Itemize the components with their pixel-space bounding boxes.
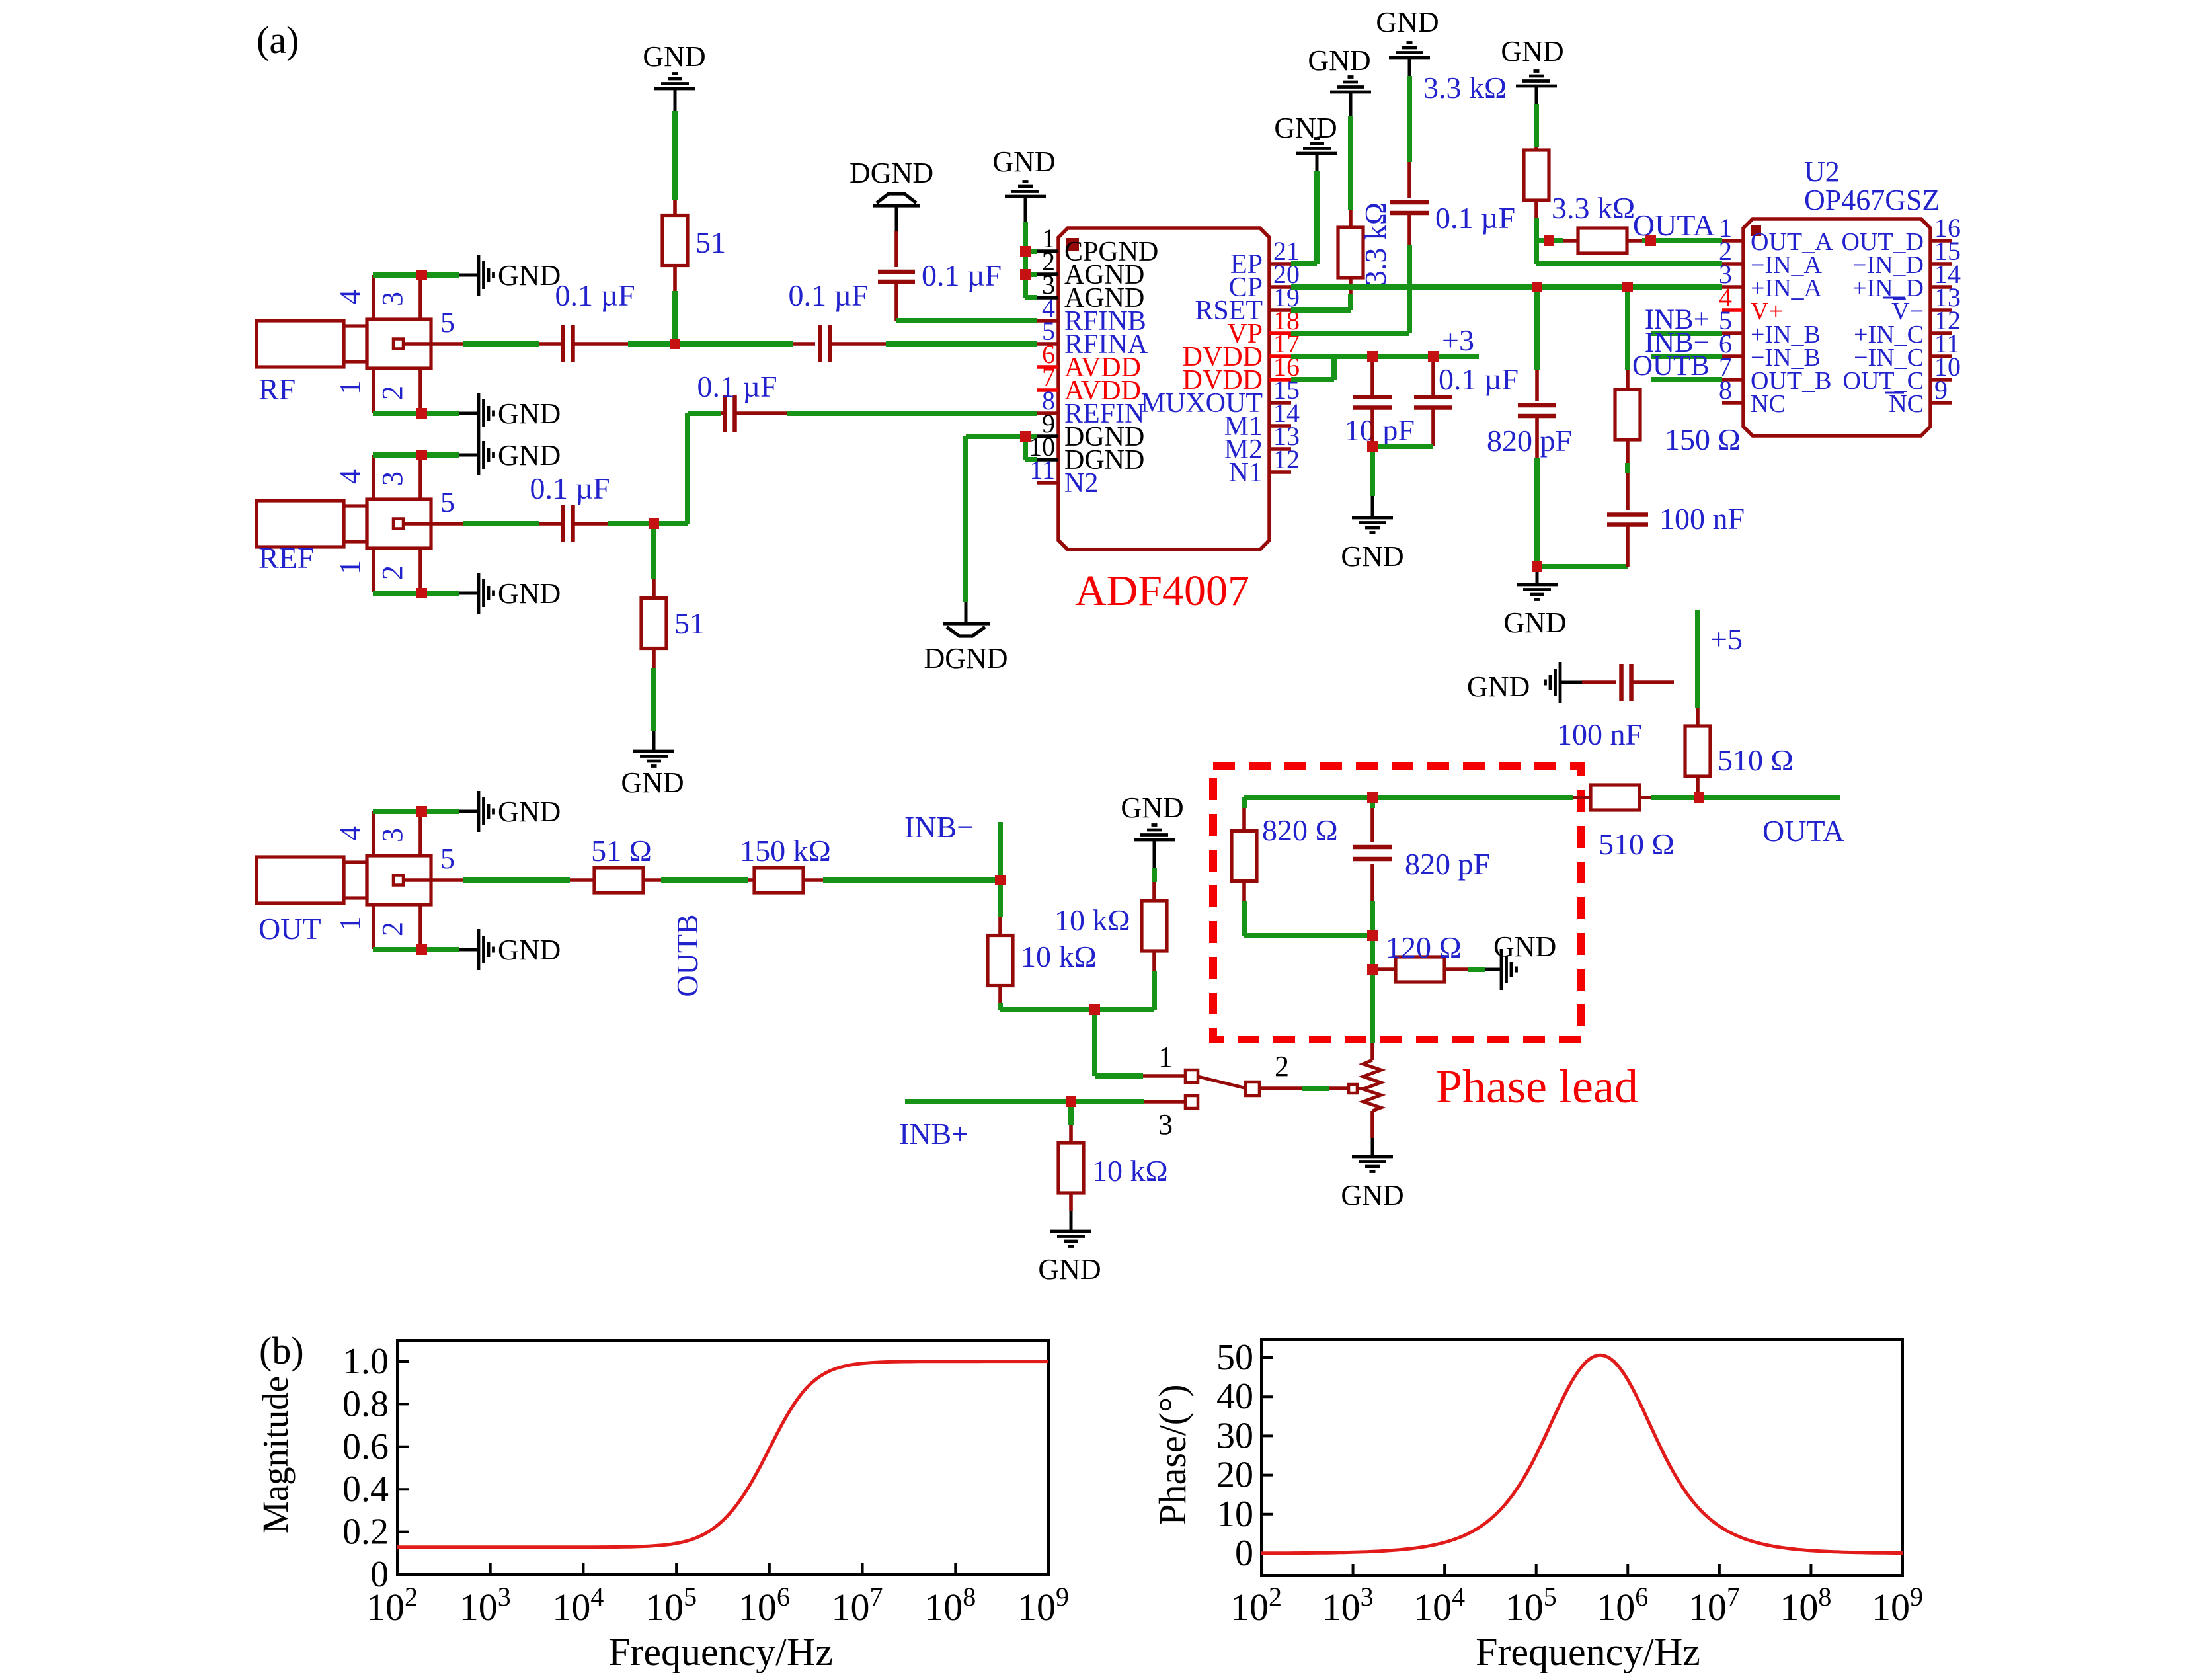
connector X3 pin 5 pad [393,876,403,885]
wire R10 up to GND [1152,882,1156,902]
wire INB- stub up [998,822,1003,880]
svg-text:10 kΩ: 10 kΩ [1054,903,1130,937]
wire stub to R5 [1563,239,1580,243]
wire RF pin5 to C1 [431,342,463,346]
svg-text:GND: GND [1121,792,1183,824]
svg-text:DGND: DGND [849,157,933,189]
plot phase curve [1261,1355,1903,1553]
svg-text:NC: NC [1751,390,1786,418]
switch S1 contact 1 [1185,1070,1198,1082]
junction INB+ / R11 [1066,1096,1076,1107]
svg-text:10 pF: 10 pF [1345,413,1415,447]
wire R5 to OUT_A pin 1 [1627,239,1642,243]
ground X2 bottom GND symbol [459,592,479,595]
svg-text:0.1 µF: 0.1 µF [922,259,1002,292]
U1 pin 9 DGND stub [1037,434,1058,438]
svg-text:1: 1 [334,917,366,931]
junction OUT bottom ground [416,944,427,955]
wire +3 to C8 [1431,356,1435,395]
wire INB+ lead to switch pin 3 [1144,1100,1184,1104]
resistor R8 150 kOhm [754,868,803,893]
svg-text:GND: GND [1376,6,1439,38]
wire node B to riser [654,521,688,526]
connector X2 body [257,501,344,547]
svg-text:10: 10 [1216,1494,1253,1535]
plot magnitude x ticks [396,1563,399,1574]
svg-text:3: 3 [1158,1108,1173,1141]
svg-text:4: 4 [334,290,366,304]
U1 pin 1 CPGND stub [1037,249,1058,253]
svg-text:(a): (a) [257,19,299,61]
wire X3 top ground wire [373,809,459,814]
wire ground row down to GND [1536,572,1539,585]
U2 pin 4 V+ stub [1722,308,1743,312]
wire GND to R4 [1534,104,1539,147]
wire R13 to GND [1444,967,1468,971]
svg-text:OUTA: OUTA [1762,814,1844,848]
U2 overline NC right [1885,392,1904,394]
wire C11 top lead [1370,797,1375,808]
connector X1 pin 5 pad [393,339,403,349]
resistor R13 120 Ohm [1396,957,1444,982]
svg-text:100 nF: 100 nF [1557,717,1642,751]
wire C9 down to ground row [1535,416,1539,458]
wire potentiometer to GND [1370,1111,1374,1138]
ground GND (R13) [1500,949,1503,990]
wire R12 down and across [1242,880,1246,901]
U1 pin 15 MUXOUT stub [1269,401,1291,405]
U1 pin 14 M1 stub [1269,424,1291,428]
svg-text:2: 2 [1275,1050,1289,1082]
svg-text:120 Ω: 120 Ω [1386,930,1462,964]
U1 pin 8 REFIN stub [1037,411,1058,415]
wire down to 120 Ohm tap [1370,936,1375,969]
wire REF pin5 to C3 [431,522,463,526]
connector X1 pins 3-4 leads [372,275,375,319]
wire U2 pin7 OUTB stub [1651,377,1722,382]
svg-text:GND: GND [1467,671,1530,703]
junction node B (REF / R2) [649,518,659,529]
svg-text:820 pF: 820 pF [1405,847,1490,881]
svg-text:GND: GND [498,796,561,828]
U2 pin 15 −IN_D stub [1930,262,1952,266]
junction RF top ground [416,270,427,280]
capacitor C9 820pF [1518,403,1556,408]
ground GND (below R11) [1050,1230,1091,1233]
wire X1 bottom ground wire [373,411,459,416]
wire R8 to INB- node [803,878,823,882]
U1 pin 7 AVDD stub [1037,388,1058,392]
wire ground node down [1370,446,1375,496]
wire DVDD pin17 +3 rail [1291,354,1479,359]
U2 pin 14 +IN_D stub [1930,285,1952,289]
svg-text:INB+: INB+ [899,1117,968,1151]
svg-text:150 kΩ: 150 kΩ [740,834,831,868]
connector X3 body [257,857,344,903]
svg-text:0.1 µF: 0.1 µF [555,278,635,312]
wire GND down to AGND pins [1023,222,1028,298]
svg-text:GND: GND [992,145,1055,178]
resistor R3 3.3k (RSET) [1338,227,1363,278]
svg-text:51: 51 [695,225,726,259]
U1 pin 2 AGND stub [1037,272,1058,276]
wire EP to GND [1314,171,1320,264]
wire node A to C2 [675,341,793,347]
svg-text:OUT: OUT [258,912,321,946]
wire R4 down to -IN_A node [1534,200,1538,218]
wire C10 to ground row [1626,525,1630,567]
U2 pin 10 OUT_C stub [1930,378,1952,382]
svg-text:GND: GND [643,40,705,73]
U2 pin 6 −IN_B stub [1722,354,1743,358]
wire R15 to +5 node [1696,775,1700,797]
svg-text:Frequency/Hz: Frequency/Hz [1476,1630,1700,1673]
junction node A (RF / R1) [670,339,680,349]
wire REFIN row to C4 [688,411,721,416]
resistor R1 51 [662,216,688,266]
U2 pin 11 −IN_C stub [1930,354,1952,358]
U1 pin 20 CP stub [1269,285,1291,289]
wire X2 bottom ground wire [373,591,459,596]
connector X1 body [257,321,344,367]
resistor R4 3.3k (to GND) [1524,150,1549,200]
U2 pin 2 −IN_A stub [1722,262,1743,266]
wire feedback tap stub [1536,238,1563,243]
junction C9 ground row [1532,561,1542,572]
svg-text:820 pF: 820 pF [1487,424,1572,458]
capacitor C12 100 nF [1619,664,1624,701]
plot phase frame [1261,1340,1903,1576]
wire riser up to REFIN row [685,413,690,524]
ground X3 top GND symbol [459,810,479,813]
resistor R10 10 kOhm (to GND) [1142,901,1167,951]
resistor R5 3.3k (feedback) [1578,228,1627,253]
wire -IN_A row to op-amp pin 2 [1536,261,1722,266]
U2 pin 7 OUT_B stub [1722,378,1743,382]
svg-text:OUTB: OUTB [1632,350,1710,382]
wire C6 to VP pin 18 [1407,213,1411,245]
junction CP / C9 branch [1532,282,1542,292]
wire C5 to RFINB pin 4 [894,282,898,321]
junction OUTA row / C11 [1367,792,1378,803]
ground GND below R2 [652,731,656,751]
U1 pin 5 RFINA stub [1037,342,1058,346]
U2 pin 8 NC stub [1722,401,1743,405]
ground GND (above R10) [1134,838,1175,842]
plot phase y ticks [1261,1552,1273,1555]
wire R11 to GND [1069,1192,1073,1211]
U1 pin 13 M2 stub [1269,447,1291,451]
junction AGND pin2 [1020,269,1031,280]
capacitor C7 10pF [1353,395,1392,399]
svg-text:U2: U2 [1804,155,1840,188]
svg-text:3.3 kΩ: 3.3 kΩ [1552,191,1635,225]
connector X2 pin 5 pad [393,519,403,529]
svg-text:9: 9 [1934,375,1948,405]
switch S1 contact 3 [1185,1096,1198,1108]
wire R1 to node A [673,265,677,291]
svg-text:10 kΩ: 10 kΩ [1092,1154,1168,1188]
svg-text:11: 11 [1029,455,1055,485]
svg-text:12: 12 [1273,444,1300,474]
svg-text:GND: GND [498,259,561,292]
capacitor C11 820 pF [1353,845,1392,850]
svg-text:Magnitude: Magnitude [255,1376,296,1533]
connector X2 pins 3-4 leads [372,455,375,499]
svg-text:2: 2 [376,922,409,936]
wire C3 to node B [573,522,608,526]
wire OUTA row inside box [1244,795,1573,800]
ground X2 top GND symbol [459,454,479,457]
junction CPGND pin1 [1020,246,1031,257]
svg-text:RF: RF [258,372,296,406]
wire GND to R1 [672,111,678,200]
wire CP down to R6 [1625,287,1630,370]
wire GND to R3 [1348,116,1353,210]
plot magnitude frame [397,1340,1048,1574]
wire divider tap down to switch pin 1 [1092,1010,1097,1076]
svg-text:3.3 kΩ: 3.3 kΩ [1423,71,1507,104]
wire R14 to +5 node [1639,796,1651,799]
wire ground row to C10 [1537,564,1628,569]
svg-text:510 Ω: 510 Ω [1599,827,1675,861]
resistor R6 150 Ohm [1615,389,1640,440]
wire R3 to RSET pin 19 [1349,278,1353,294]
wire C2 to RFINA pin 5 [830,342,886,346]
wire C11 bottom lead [1370,864,1374,901]
svg-text:2: 2 [376,565,409,580]
wire CP down to C9 [1534,287,1540,370]
junction REF bottom ground [416,588,427,598]
svg-text:INB−: INB− [904,810,974,844]
svg-text:GND: GND [1038,1253,1101,1285]
junction REF top ground [416,450,427,460]
wire tap down to potentiometer [1370,969,1375,1043]
svg-text:GND: GND [1493,930,1556,963]
junction OUTA net label point [1645,235,1656,246]
wire stub to pin 1 [1025,249,1037,254]
svg-text:3: 3 [376,471,409,486]
svg-text:20: 20 [1216,1455,1253,1496]
potentiometer RP1 wiper pad [1349,1084,1357,1093]
svg-text:GND: GND [1308,44,1370,77]
junction OUT top ground [416,806,427,817]
capacitor C5 0.1uF (RFINB to DGND) [878,270,915,274]
svg-text:820 Ω: 820 Ω [1262,813,1338,847]
wire CP to op-amp +IN_A [1291,284,1722,290]
resistor R9 10 kOhm [988,936,1013,986]
svg-text:0.6: 0.6 [342,1426,389,1467]
ground GND (below C7) [1352,516,1393,520]
junction RF bottom ground [416,408,427,419]
U1 pin 19 RSET stub [1269,308,1291,312]
svg-text:(b): (b) [259,1329,304,1372]
capacitor C1 0.1uF (RF coupling) [561,325,565,362]
svg-text:40: 40 [1216,1376,1253,1417]
svg-text:5: 5 [440,306,455,339]
wire divider row [1000,1007,1154,1012]
svg-text:5: 5 [440,842,455,875]
U1 pin 16 DVDD stub [1269,378,1291,382]
capacitor C10 100nF [1607,512,1648,517]
U2 pin 5 +IN_B stub [1722,331,1743,335]
svg-text:3: 3 [376,828,409,842]
U1 pin 18 VP stub [1269,331,1291,335]
svg-text:510 Ω: 510 Ω [1718,743,1794,777]
IC U1 ADF4007 outline [1058,228,1269,550]
capacitor C6 0.1uF (VP decoupling) [1390,200,1429,205]
plot magnitude curve [397,1362,1048,1547]
svg-text:1: 1 [1158,1041,1173,1073]
svg-text:50: 50 [1216,1337,1253,1378]
resistor R12 820 Ohm [1232,831,1257,881]
svg-text:3: 3 [376,292,409,306]
junction INB- node [995,875,1006,885]
wire +3 to C7 [1370,356,1374,395]
U1 pin 4 RFINB stub [1037,319,1058,323]
svg-text:GND: GND [498,934,561,966]
ground GND (C9/C10) [1517,583,1558,587]
wire DGND to C5 [894,231,898,267]
switch S1 pole contact 2 [1245,1082,1259,1096]
junction R12 / C11 bottom [1367,930,1378,941]
ground X1 top GND symbol [459,274,479,277]
U1 pin 17 DVDD stub [1269,354,1291,358]
connector X2 pins 1-2 leads [372,548,375,592]
svg-text:NC: NC [1889,390,1924,418]
junction +5 node [1694,792,1704,803]
resistor R14 510 Ohm [1591,785,1639,810]
svg-text:DGND: DGND [924,642,1007,674]
wire R11 branch [1068,1102,1074,1125]
wire down to DGND symbol [963,436,968,602]
U2 pin 1 OUT_A stub [1722,239,1743,243]
svg-text:GND: GND [621,766,684,799]
switch S1 blade [1198,1077,1247,1088]
wire stub to pin 2 [1025,272,1037,277]
wire OUT pin5 to R7 [431,878,463,882]
svg-text:0.1 µF: 0.1 µF [1439,362,1519,396]
wire R2 to GND [652,647,656,668]
wire C8 to ground node [1431,408,1435,446]
connector X1 pins 1-2 leads [372,368,375,413]
svg-text:+3: +3 [1442,323,1474,357]
connector X3 pins 1-2 leads [372,905,375,949]
junction +3 rail / C7 [1367,351,1378,362]
svg-text:N2: N2 [1064,468,1098,499]
dashed box Phase lead [1213,766,1581,1040]
wire R9 down to divider row [998,984,1002,1003]
wire INB+ row [905,1099,1144,1104]
wire DVDD pin16 riser [1291,377,1334,382]
svg-text:Frequency/Hz: Frequency/Hz [608,1630,833,1673]
svg-text:5: 5 [440,486,455,518]
svg-text:OUTB: OUTB [670,914,704,997]
U2 pin 13 V− stub [1930,308,1952,312]
svg-text:GND: GND [1341,540,1403,573]
junction feedback tap [1544,235,1554,246]
wire DGND pins 9-10 [966,434,1037,439]
wire GND to C6 [1407,76,1412,162]
svg-text:0: 0 [1235,1533,1253,1574]
wire switch pole to potentiometer wiper [1259,1086,1302,1090]
svg-text:51: 51 [674,606,705,640]
potentiometer RP1 element [1363,1060,1381,1111]
svg-text:Phase/(°): Phase/(°) [1151,1384,1194,1525]
wire INB- node down to R9 [998,880,1003,917]
svg-text:GND: GND [498,577,561,610]
svg-text:GND: GND [1503,606,1566,639]
connector X3 pins 3-4 leads [372,811,375,856]
svg-text:0.4: 0.4 [342,1469,389,1510]
wire C1 to node A [573,342,628,346]
U1 pin 6 AVDD stub [1037,365,1058,369]
wire node B down to R2 [651,524,656,579]
svg-text:1.0: 1.0 [342,1341,389,1382]
U2 overline V- [1883,297,1905,299]
resistor R7 51 Ohm [594,868,643,893]
capacitor C2 0.1uF (RFINA coupling) [818,325,822,362]
wire divider row up to R10 [1152,971,1157,1010]
U1 pin 21 EP stub [1269,262,1291,266]
svg-text:0.8: 0.8 [342,1383,389,1424]
U1 pin 12 N1 stub [1269,470,1291,474]
svg-text:0.1 µF: 0.1 µF [697,370,777,403]
svg-text:4: 4 [334,826,366,840]
wire C4 to REFIN pin 8 [735,411,787,415]
ground X3 bottom GND symbol [459,948,479,952]
wire X3 bottom ground wire [373,947,459,952]
IC U2 OP467GSZ outline [1743,219,1930,436]
IC U2 pin1 marker [1751,225,1761,236]
ground X1 bottom GND symbol [459,412,479,415]
svg-text:1: 1 [334,560,366,575]
capacitor C4 0.1uF (REFIN coupling) [723,395,727,432]
svg-text:GND: GND [1501,35,1563,67]
junction divider row [1089,1004,1100,1015]
wire OUTA to the right [1699,795,1840,800]
svg-text:100 nF: 100 nF [1659,502,1745,536]
svg-text:+5: +5 [1710,622,1743,656]
wire OUTA row to R14 [1573,796,1591,799]
wire C7 to ground node [1370,408,1374,446]
svg-text:0.1 µF: 0.1 µF [530,471,610,505]
wire X2 top ground wire [373,452,459,458]
svg-text:Phase lead: Phase lead [1436,1060,1638,1113]
junction DGND pin9 [1020,431,1031,442]
svg-text:1: 1 [334,380,366,395]
capacitor C8 0.1uF [1414,395,1452,399]
svg-text:30: 30 [1216,1415,1253,1456]
junction +3 rail / C8 [1428,351,1439,362]
svg-text:150 Ω: 150 Ω [1665,423,1741,456]
svg-text:2: 2 [376,386,409,400]
svg-text:GND: GND [1274,112,1337,144]
wire R7 to R8 [643,878,661,882]
IC U1 pin1 marker [1066,238,1079,251]
U1 pin 11 N2 stub [1037,481,1058,485]
wire U2 pin5 INB+ stub [1651,331,1722,336]
U1 pin 3 AGND stub [1037,296,1058,300]
plot magnitude y ticks [397,1573,409,1576]
resistor R11 10 kOhm [1058,1143,1084,1193]
wire +5 rail down [1695,610,1700,708]
svg-text:GND: GND [1341,1179,1403,1211]
plot phase x ticks [1260,1564,1263,1576]
svg-text:OP467GSZ: OP467GSZ [1804,184,1940,216]
wire C12 right lead [1632,680,1674,684]
svg-text:0.1 µF: 0.1 µF [788,278,868,312]
